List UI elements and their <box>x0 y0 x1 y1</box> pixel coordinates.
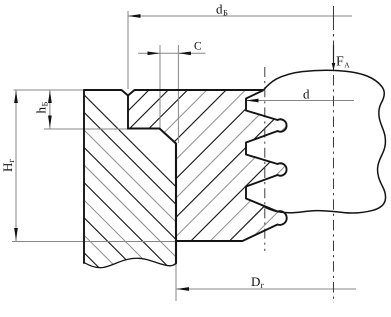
dimension h_b (vertical) <box>49 90 51 129</box>
extension lines for C <box>159 45 161 128</box>
extension line collar seat level <box>44 128 128 130</box>
extension line top face level <box>14 89 85 91</box>
dimension d <box>246 100 354 102</box>
force F_A arrow <box>333 45 335 66</box>
hatching part A (block, \ direction) <box>82 93 178 317</box>
pitch dash-dot line of teeth <box>264 67 266 251</box>
extension line d_b at x=128 <box>127 11 129 89</box>
svg-text:C: C <box>194 41 202 53</box>
extension line B bottom level <box>12 241 176 243</box>
part A outline (block) <box>84 90 128 263</box>
hatching part B (sleeve, / direction) <box>126 0 288 317</box>
part C outline (shaft with free surfaces) <box>263 70 386 213</box>
centerline main axis <box>333 6 335 70</box>
dimension H_g (vertical, left) <box>15 90 17 241</box>
A/B step boundary <box>128 129 176 264</box>
dimension C <box>138 52 206 54</box>
B bottom face <box>176 240 243 242</box>
extension line D_g at x=176 <box>175 243 177 301</box>
thread zigzag boundary B/C <box>243 91 287 241</box>
part B top face and V chamfer <box>128 90 263 96</box>
svg-text:d: d <box>303 87 310 102</box>
dimension d_b <box>128 15 352 17</box>
A wavy break line <box>84 258 176 267</box>
dimension D_g <box>177 288 357 290</box>
